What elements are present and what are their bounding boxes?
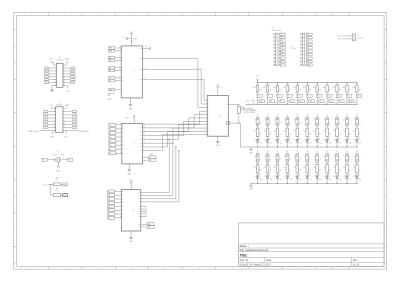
net label box XTAL1 — [42, 158, 47, 161]
svg-text:R?: R? — [343, 167, 345, 169]
svg-text:R?: R? — [274, 167, 276, 169]
svg-text:TX10: TX10 — [349, 101, 353, 103]
LED BD7 — [314, 137, 322, 147]
pin 9 of J4 — [273, 60, 277, 62]
net label box at J5 pin 7 — [306, 54, 312, 57]
net label box below RA3 — [277, 95, 283, 105]
svg-text:red: red — [299, 179, 301, 181]
svg-text:R?: R? — [333, 167, 335, 169]
wire U2 out8 to U4 in8 — [143, 135, 208, 152]
svg-text:Cn: Cn — [309, 122, 311, 124]
svg-text:Cn: Cn — [260, 159, 262, 161]
svg-text:R?: R? — [254, 131, 256, 133]
svg-text:GND: GND — [129, 108, 134, 110]
LED CD7 — [314, 174, 322, 184]
svg-text:1K: 1K — [339, 134, 341, 136]
LED CD2 — [264, 174, 272, 184]
LED CD3 — [274, 174, 282, 184]
wire U3 out4 up to U2 row8 — [141, 150, 180, 202]
net label above B5 — [297, 115, 299, 117]
svg-text:D11: D11 — [280, 41, 283, 43]
pin 3 of J5 — [300, 40, 304, 42]
svg-text:L?: L? — [264, 176, 266, 178]
power VCC above U4 — [216, 84, 223, 95]
svg-text:R?: R? — [274, 131, 276, 133]
resistor BR8 — [323, 128, 330, 139]
connector pill B11 — [353, 117, 361, 128]
svg-text:L?: L? — [284, 176, 286, 178]
svg-text:D13: D13 — [280, 47, 283, 49]
svg-text:Cn: Cn — [260, 122, 262, 124]
svg-text:red: red — [289, 143, 291, 145]
svg-text:1K: 1K — [289, 170, 291, 172]
svg-text:4K7: 4K7 — [253, 87, 256, 89]
wire U2 out3 to U4 in3 — [143, 118, 208, 132]
svg-text:4K7: 4K7 — [283, 87, 286, 89]
svg-text:GND: GND — [127, 173, 132, 175]
ground below U3 — [129, 231, 134, 243]
resistor CR5 — [294, 165, 301, 176]
power GND at J2 pin2 — [65, 59, 70, 65]
svg-text:ID Part: ID Part — [56, 103, 62, 106]
op-amp U1 body — [121, 46, 142, 98]
svg-text:J?: J? — [284, 120, 286, 122]
net label box on bus col 3 — [279, 100, 286, 104]
svg-text:TX3: TX3 — [280, 101, 283, 103]
svg-text:J?: J? — [323, 120, 325, 122]
svg-text:J?: J? — [358, 35, 360, 37]
resistor BR3 — [274, 128, 281, 139]
wire U2 out6 to U4 in6 — [143, 128, 208, 144]
svg-text:J?: J? — [284, 156, 286, 158]
svg-text:GND: GND — [50, 137, 55, 139]
bus wire row A — [246, 104, 358, 105]
resistor BR6 — [304, 128, 311, 139]
svg-text:red: red — [309, 179, 311, 181]
power GND at J3 pin2 — [65, 105, 70, 109]
resistor RA2 4K7 — [263, 83, 272, 95]
svg-text:L?: L? — [304, 176, 306, 178]
svg-text:Cn: Cn — [300, 122, 302, 124]
resistor R-osc 1M — [53, 151, 65, 156]
svg-text:Cn: Cn — [319, 122, 321, 124]
wire U1 RX to U4 — [142, 67, 207, 104]
pin 6 of J5 — [300, 50, 304, 52]
svg-text:D12: D12 — [280, 44, 283, 46]
svg-text:R?: R? — [314, 167, 316, 169]
LED BD3 — [274, 137, 282, 147]
svg-text:1K: 1K — [319, 134, 321, 136]
svg-text:red: red — [260, 143, 262, 145]
no-connect USB pin — [107, 93, 114, 101]
svg-text:R?: R? — [284, 167, 286, 169]
resistor RA7 4K7 — [313, 83, 322, 95]
svg-text:1K: 1K — [279, 134, 281, 136]
svg-text:D8: D8 — [307, 54, 309, 56]
svg-text:U?: U? — [221, 87, 223, 89]
svg-text:L?: L? — [324, 176, 326, 178]
net label box below RA5 — [297, 95, 303, 105]
connector pill B6 — [304, 117, 312, 128]
svg-text:J?: J? — [353, 120, 355, 122]
svg-text:red: red — [299, 143, 301, 145]
LED CD8 — [324, 174, 332, 184]
net label box on bus col 5 — [299, 100, 306, 104]
svg-text:R?1: R?1 — [240, 107, 243, 109]
svg-text:red: red — [289, 179, 291, 181]
resistor RA9 4K7 — [333, 83, 342, 95]
svg-text:L?: L? — [274, 140, 276, 142]
pin 5 of J5 — [300, 47, 304, 49]
svg-text:TX6: TX6 — [309, 101, 312, 103]
LED BD11 — [353, 137, 361, 147]
svg-text:R?: R? — [294, 131, 296, 133]
svg-text:4K7: 4K7 — [273, 87, 276, 89]
svg-text:1K: 1K — [299, 134, 301, 136]
net label box below RA2 — [267, 95, 273, 105]
net label box at J5 pin 5 — [306, 47, 312, 50]
wire U2 out1 to U4 in1 — [143, 111, 208, 125]
svg-text:GND: GND — [56, 170, 61, 172]
svg-text:1K: 1K — [259, 170, 261, 172]
net label boxes group 2 left of U1 — [109, 56, 124, 62]
net label box on bus col 6 — [309, 100, 316, 104]
svg-text:16: 16 — [63, 130, 65, 132]
transistor array U4 body — [207, 95, 228, 136]
svg-text:red: red — [280, 179, 282, 181]
resistor R2 4.7k — [53, 188, 62, 196]
svg-text:4K7: 4K7 — [263, 87, 266, 89]
svg-text:Cn: Cn — [319, 159, 321, 161]
svg-text:Cn: Cn — [280, 159, 282, 161]
pin name marks inside U4 right — [225, 104, 227, 123]
svg-text:B2: B2 — [108, 199, 110, 201]
net label box on bus col 8 — [329, 100, 336, 104]
svg-text:red: red — [270, 143, 272, 145]
svg-text:L?: L? — [324, 140, 326, 142]
resistor BR4 — [284, 128, 291, 139]
svg-text:T10: T10 — [357, 96, 360, 98]
svg-text:J?: J? — [274, 120, 276, 122]
ground GND below J3 — [50, 131, 55, 139]
svg-text:L?: L? — [314, 176, 316, 178]
svg-text:12: 12 — [143, 134, 145, 136]
svg-text:1K: 1K — [269, 170, 271, 172]
resistor RA8 4K7 — [323, 83, 332, 95]
op-amp U2 body — [122, 124, 143, 164]
connector pill C3 — [274, 154, 282, 165]
svg-text:red: red — [339, 143, 341, 145]
ground symbol row C — [249, 183, 253, 190]
title block — [238, 223, 384, 267]
connector pill B5 — [294, 117, 302, 128]
wire U3 out1 up to U2 row5 — [141, 139, 170, 193]
pin 7 of J5 — [300, 53, 304, 55]
net label IR_PRES_SENSE wire — [243, 112, 256, 114]
svg-text:TX8: TX8 — [329, 101, 332, 103]
pin name marks inside U2 right — [140, 124, 142, 151]
svg-text:15: 15 — [54, 85, 56, 87]
svg-text:L?: L? — [334, 176, 336, 178]
svg-text:1K: 1K — [359, 170, 361, 172]
LED BD10 — [344, 137, 352, 147]
net label above B10 — [346, 115, 348, 117]
svg-text:Cn: Cn — [329, 122, 331, 124]
svg-text:TX2: TX2 — [270, 101, 273, 103]
connector pill C6 — [304, 154, 312, 165]
net label above C7 — [316, 151, 318, 153]
svg-text:red: red — [329, 179, 331, 181]
net label above C1 — [257, 151, 259, 153]
LED CD9 — [334, 174, 342, 184]
svg-text:L?: L? — [344, 176, 346, 178]
svg-text:red: red — [309, 143, 311, 145]
svg-text:red: red — [280, 143, 282, 145]
resistor CR7 — [314, 165, 321, 176]
LED BD4 — [284, 137, 292, 147]
svg-text:11: 11 — [55, 79, 57, 81]
resistor BR9 — [333, 128, 340, 139]
net label box at J5 pin 6 — [306, 50, 312, 53]
net label above C8 — [326, 151, 328, 153]
net label above C6 — [307, 151, 309, 153]
svg-text:J?: J? — [264, 120, 266, 122]
svg-text:Part 2: Part 2 — [292, 47, 297, 50]
svg-text:Sheet: /: Sheet: / — [240, 244, 249, 248]
svg-text:red: red — [349, 179, 351, 181]
svg-text:J?: J? — [294, 156, 296, 158]
svg-text:14: 14 — [143, 127, 145, 129]
svg-text:Cn: Cn — [290, 122, 292, 124]
svg-text:1K: 1K — [349, 170, 351, 172]
power VCC above U2 — [125, 116, 135, 124]
net label box at J5 pin 9 — [306, 60, 312, 63]
svg-text:1K: 1K — [359, 134, 361, 136]
pin 8 of J5 — [300, 57, 304, 59]
svg-text:L?: L? — [254, 176, 256, 178]
power VCC at resistor rail — [256, 76, 260, 83]
svg-text:J?: J? — [274, 156, 276, 158]
svg-text:15: 15 — [54, 130, 56, 132]
LED BD9 — [334, 137, 342, 147]
svg-text:Title:: Title: — [240, 254, 248, 258]
svg-text:TX5: TX5 — [299, 101, 302, 103]
net label above B9 — [336, 115, 338, 117]
resistor CR10 — [343, 165, 350, 176]
svg-text:L?: L? — [254, 140, 256, 142]
svg-text:R?: R? — [264, 167, 266, 169]
svg-text:14: 14 — [63, 127, 65, 129]
svg-text:GND: GND — [129, 241, 134, 243]
svg-text:PWR_FLAG: PWR_FLAG — [79, 130, 89, 133]
resistor BR5 — [294, 128, 301, 139]
net label box at J5 pin 3 — [306, 40, 312, 43]
net label box below RA7 — [316, 95, 322, 105]
net label above B7 — [316, 115, 318, 117]
pin 6 of J4 — [273, 50, 277, 52]
svg-text:Rev:: Rev: — [353, 259, 358, 262]
net label above B8 — [326, 115, 328, 117]
net label above B4 — [287, 115, 289, 117]
connector J2 ID Part — [44, 57, 75, 87]
net label box at J5 pin 4 — [306, 43, 312, 46]
wire U3 out3 up to U2 row7 — [141, 146, 177, 198]
svg-text:TX4: TX4 — [290, 101, 293, 103]
connector J1 screw terminal — [338, 34, 364, 41]
svg-text:D5: D5 — [307, 44, 309, 46]
connector pill B4 — [284, 117, 292, 128]
connector pill C4 — [284, 154, 292, 165]
pin name marks inside U3 right — [138, 192, 140, 227]
svg-text:J?: J? — [254, 120, 256, 122]
net label box on bus col 2 — [269, 100, 276, 104]
LED BD2 — [264, 137, 272, 147]
net label box at J5 pin 2 — [306, 37, 312, 40]
svg-text:TX: TX — [109, 60, 111, 62]
svg-text:Date:: Date: — [266, 259, 272, 262]
svg-text:File: solarexperiment.sch: File: solarexperiment.sch — [240, 248, 269, 252]
svg-text:Cn: Cn — [349, 159, 351, 161]
net label box below RA6 — [307, 95, 313, 105]
svg-text:J?: J? — [323, 156, 325, 158]
svg-text:1K: 1K — [269, 134, 271, 136]
svg-text:11: 11 — [54, 124, 56, 126]
svg-text:B5: B5 — [108, 210, 110, 212]
svg-text:11: 11 — [143, 138, 145, 140]
LED BD8 — [324, 137, 332, 147]
net label above C5 — [297, 151, 299, 153]
wire U1 D2 to U4 — [142, 78, 207, 101]
svg-text:D10: D10 — [307, 61, 310, 63]
ground below U4 — [216, 136, 221, 147]
svg-text:RX: RX — [149, 160, 151, 162]
stub pins right of U3 — [141, 206, 147, 217]
power VCC at J2 pin1 — [49, 59, 53, 65]
svg-text:4K7: 4K7 — [293, 87, 296, 89]
connector pill C7 — [314, 154, 322, 165]
svg-text:11: 11 — [145, 78, 147, 80]
net label box at R2 — [63, 194, 68, 197]
pin 9 of J5 — [300, 60, 304, 62]
wire U1 TX to U4 — [142, 57, 207, 108]
svg-text:L?: L? — [284, 140, 286, 142]
wire VCC rail row A — [257, 82, 358, 83]
net label box at J4 pin 3 — [279, 40, 285, 43]
svg-text:1K: 1K — [279, 170, 281, 172]
svg-text:Cn: Cn — [270, 159, 272, 161]
svg-text:L?: L? — [294, 176, 296, 178]
resistor CR3 — [274, 165, 281, 176]
resistor RA10 4K7 — [343, 83, 352, 95]
net label box on bus col 4 — [289, 100, 296, 104]
svg-text:Cn: Cn — [329, 159, 331, 161]
resistor RA1 4K7 — [253, 83, 262, 95]
net label box at J5 pin 1 — [306, 33, 312, 36]
svg-text:R?: R? — [333, 131, 335, 133]
net label box XTAL2 — [68, 158, 73, 161]
svg-text:red: red — [260, 179, 262, 181]
svg-text:D7: D7 — [307, 51, 309, 53]
svg-text:4K7: 4K7 — [313, 87, 316, 89]
svg-text:1K: 1K — [309, 170, 311, 172]
net label box at J4 pin 8 — [279, 57, 285, 60]
net label box at J4 pin 2 — [279, 37, 285, 40]
resistor CR2 — [264, 165, 271, 176]
net label box at J4 pin 6 — [279, 50, 285, 53]
svg-text:B6: B6 — [108, 214, 110, 216]
svg-text:Cn: Cn — [339, 122, 341, 124]
net label boxes group 1 left of U1 — [109, 47, 124, 53]
resistor RA5 4K7 — [293, 83, 302, 95]
net label box at R1 — [63, 183, 68, 186]
net label box below RA1 — [257, 95, 263, 105]
LED CD1 — [254, 174, 262, 184]
svg-text:J?: J? — [254, 156, 256, 158]
resistor RA4 4K7 — [283, 83, 292, 95]
resistor CR11 — [353, 165, 360, 176]
net label above C11 — [356, 151, 358, 153]
svg-text:GND: GND — [307, 64, 310, 66]
svg-text:L?: L? — [274, 176, 276, 178]
LED BD5 — [294, 137, 302, 147]
svg-text:R?: R? — [314, 131, 316, 133]
wire U2 out2 to U4 in2 — [143, 115, 208, 129]
svg-text:ID Part: ID Part — [57, 58, 63, 61]
connector pill B9 — [333, 117, 341, 128]
svg-text:R?: R? — [254, 167, 256, 169]
svg-text:10: 10 — [205, 130, 207, 132]
svg-text:TX1: TX1 — [260, 101, 263, 103]
net label box below RA10 — [346, 95, 352, 105]
svg-text:J?: J? — [333, 120, 335, 122]
svg-text:Cn: Cn — [309, 159, 311, 161]
svg-text:GND: GND — [216, 145, 221, 147]
pin name marks inside U1 right — [139, 49, 141, 80]
power VCC at J3 pin1 — [50, 105, 54, 109]
svg-text:4K7: 4K7 — [353, 87, 356, 89]
svg-text:IR_PRES_SENSE?: IR_PRES_SENSE? — [240, 109, 253, 111]
net label box at J4 pin 4 — [279, 43, 285, 46]
svg-text:GND: GND — [150, 154, 153, 156]
net label above B2 — [267, 115, 269, 117]
power VCC above U1 — [130, 32, 134, 46]
net label TX1 left of bus — [240, 101, 254, 111]
connector pill B3 — [274, 117, 282, 128]
svg-text:J?: J? — [343, 120, 345, 122]
LED CD6 — [304, 174, 312, 184]
LED CD11 — [353, 174, 361, 184]
svg-text:R?: R? — [323, 167, 325, 169]
svg-text:13: 13 — [143, 130, 145, 132]
connector pill B2 — [264, 117, 272, 128]
connector pill B7 — [314, 117, 322, 128]
wire U4 pin out to LED rail — [228, 122, 240, 147]
svg-text:4.7k: 4.7k — [55, 190, 58, 192]
connector J3 ID Part — [43, 102, 77, 132]
connector pill C9 — [333, 154, 341, 165]
connector pill C5 — [294, 154, 302, 165]
resistor RA6 4K7 — [303, 83, 312, 95]
resistor BR10 — [343, 128, 350, 139]
svg-text:SCL: SCL — [63, 195, 66, 197]
net label box at J4 pin 1 — [279, 33, 285, 36]
ground symbol row B — [249, 147, 253, 154]
svg-text:J?: J? — [333, 156, 335, 158]
svg-text:R?: R? — [353, 167, 355, 169]
svg-text:TX9: TX9 — [339, 101, 342, 103]
wire U3 out2 up to U2 row6 — [141, 143, 174, 196]
svg-text:1K: 1K — [259, 134, 261, 136]
